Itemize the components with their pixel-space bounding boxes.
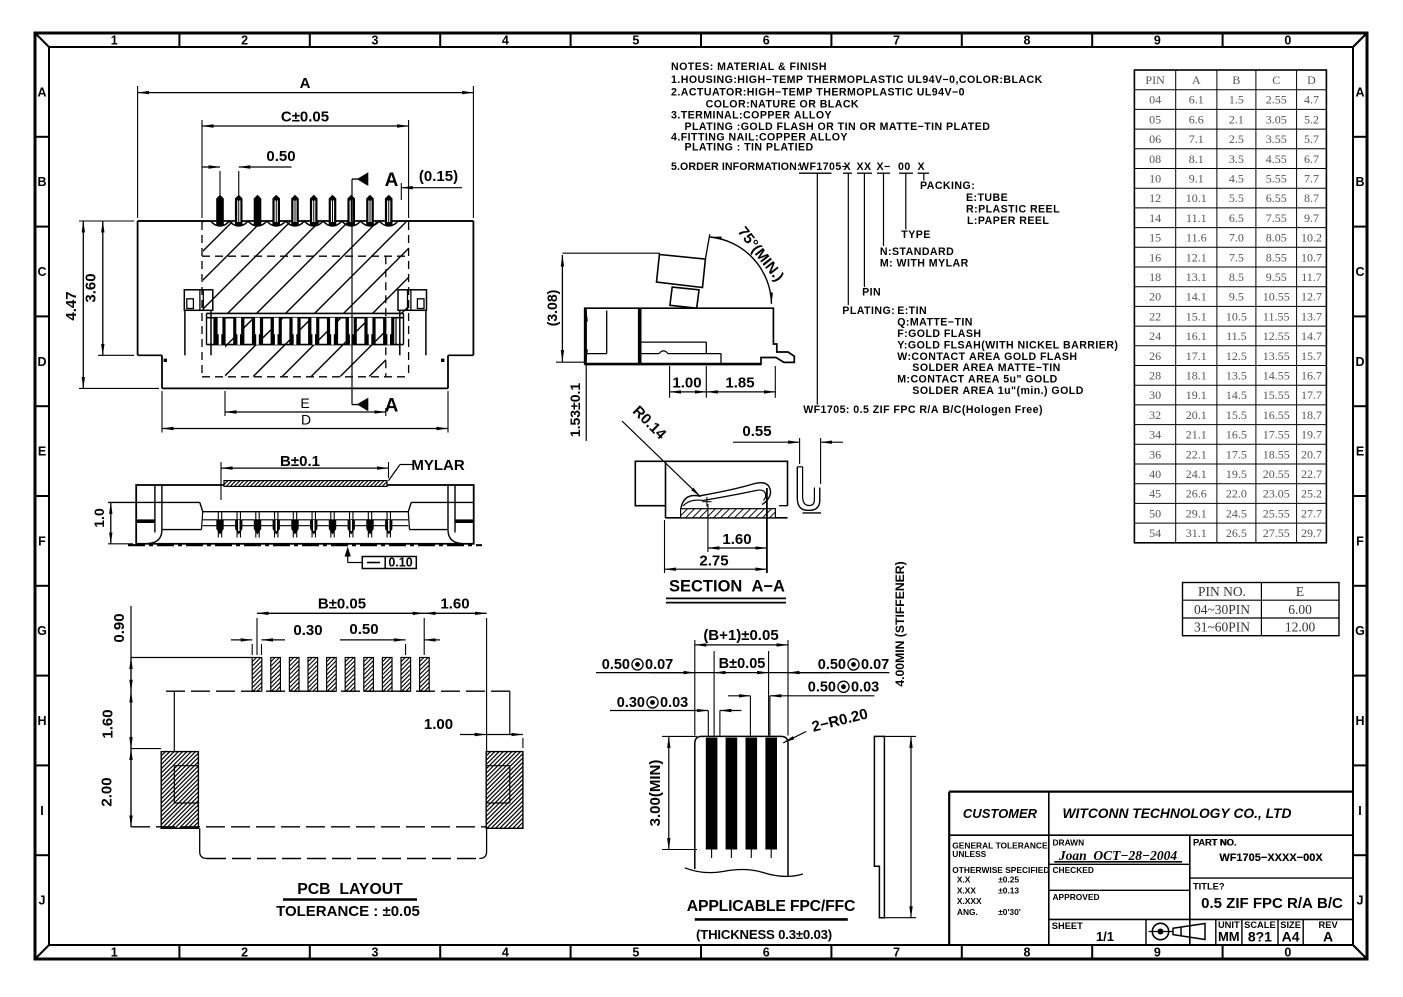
svg-text:±0'30': ±0'30'	[998, 907, 1021, 917]
front view: lower contact comb	[207, 313, 404, 344]
svg-text:24.5: 24.5	[1226, 506, 1247, 520]
svg-text:PCB LAYOUT: PCB LAYOUT	[297, 881, 403, 898]
svg-text:14: 14	[1149, 211, 1161, 225]
pin-no vs E table	[1183, 583, 1340, 636]
side view: center platform	[108, 502, 474, 529]
svg-text:8.5: 8.5	[1229, 270, 1244, 284]
svg-text:2: 2	[241, 946, 248, 960]
title block: drawn signature	[1054, 848, 1182, 863]
svg-text:(0.15): (0.15)	[419, 168, 458, 185]
svg-text:PLATING:: PLATING:	[842, 305, 895, 317]
order tree: type legend	[880, 229, 969, 270]
svg-text:14.55: 14.55	[1263, 369, 1290, 383]
svg-text:C±0.05: C±0.05	[281, 109, 329, 126]
svg-text:X.XX: X.XX	[957, 885, 976, 895]
dimension E (front)	[225, 391, 386, 416]
caption PCB LAYOUT	[276, 881, 420, 920]
svg-text:22.1: 22.1	[1186, 447, 1207, 461]
title block frame	[949, 792, 1353, 945]
order tree: series description	[803, 404, 1043, 416]
svg-text:I: I	[40, 804, 43, 818]
front view: dashed contact zone box	[202, 222, 409, 377]
svg-text:5: 5	[632, 34, 639, 48]
svg-text:11.6: 11.6	[1186, 231, 1207, 245]
svg-text:6.55: 6.55	[1266, 191, 1287, 205]
svg-text:6: 6	[763, 946, 770, 960]
svg-text:13.7: 13.7	[1301, 309, 1322, 323]
caption APPLICABLE FPC/FFC	[687, 898, 855, 942]
svg-text:15.1: 15.1	[1186, 309, 1207, 323]
svg-text:22: 22	[1149, 309, 1161, 323]
open view: 75 degree swing arc	[710, 224, 787, 304]
svg-text:2.55: 2.55	[1266, 93, 1287, 107]
svg-text:A: A	[1323, 929, 1333, 945]
svg-text:2.5: 2.5	[1229, 132, 1244, 146]
svg-text:20: 20	[1149, 290, 1161, 304]
svg-text:8: 8	[1024, 34, 1031, 48]
front view: housing hatch upper	[112, 222, 493, 313]
svg-text:8.55: 8.55	[1266, 250, 1287, 264]
section A-A: body cross-section	[635, 461, 787, 518]
svg-text:±0.13: ±0.13	[998, 885, 1019, 895]
svg-text:PLATING : TIN PLATIED: PLATING : TIN PLATIED	[685, 142, 814, 154]
svg-text:16.1: 16.1	[1186, 329, 1207, 343]
svg-text:6.6: 6.6	[1189, 112, 1204, 126]
svg-text:31~60PIN: 31~60PIN	[1194, 620, 1250, 635]
svg-text:H: H	[37, 714, 46, 728]
svg-text:7.7: 7.7	[1304, 172, 1319, 186]
svg-text:32: 32	[1149, 408, 1161, 422]
svg-text:2.ACTUATOR:HIGH−TEMP THERMOPLA: 2.ACTUATOR:HIGH−TEMP THERMOPLASTIC UL94V…	[671, 87, 965, 99]
svg-text:30: 30	[1149, 388, 1161, 402]
svg-text:05: 05	[1149, 112, 1161, 126]
svg-text:3.05: 3.05	[1266, 112, 1287, 126]
svg-text:7: 7	[893, 34, 900, 48]
section A-A: contact spring curve	[681, 483, 771, 573]
title block: drawn / checked / approved	[1053, 838, 1100, 903]
svg-text:0: 0	[1284, 946, 1291, 960]
svg-text:19.7: 19.7	[1301, 428, 1322, 442]
svg-text:0.55: 0.55	[742, 423, 771, 440]
svg-text:11.1: 11.1	[1186, 211, 1207, 225]
order tree: pin label	[862, 287, 881, 299]
svg-text:0.03: 0.03	[851, 679, 879, 695]
side view: housing outline	[136, 485, 474, 544]
svg-text:11.55: 11.55	[1263, 309, 1290, 323]
svg-text:I: I	[1358, 804, 1361, 818]
svg-text:E:TUBE: E:TUBE	[966, 192, 1008, 204]
svg-text:1.00: 1.00	[424, 716, 453, 733]
front view: connector housing outline	[138, 221, 474, 355]
svg-text:25.55: 25.55	[1263, 506, 1290, 520]
svg-text:34: 34	[1149, 428, 1161, 442]
svg-text:7.1: 7.1	[1189, 132, 1204, 146]
svg-text:MM: MM	[1218, 929, 1240, 944]
svg-text:X−: X−	[877, 161, 891, 173]
svg-text:SECTION A−A: SECTION A−A	[669, 578, 785, 596]
svg-text:15.5: 15.5	[1226, 408, 1247, 422]
svg-text:C: C	[1272, 73, 1280, 87]
svg-text:4.55: 4.55	[1266, 152, 1287, 166]
svg-text:Q:MATTE−TIN: Q:MATTE−TIN	[897, 317, 973, 329]
svg-text:04~30PIN: 04~30PIN	[1194, 602, 1250, 617]
front view: housing hatch lower	[166, 318, 428, 377]
svg-text:APPLICABLE FPC/FFC: APPLICABLE FPC/FFC	[687, 898, 855, 915]
svg-text:6.00: 6.00	[1288, 602, 1312, 617]
svg-text:D: D	[37, 355, 46, 369]
title block: company name	[1063, 806, 1292, 821]
svg-text:13.5: 13.5	[1226, 369, 1247, 383]
fpc: film body outline	[685, 736, 803, 877]
caption SECTION A-A	[666, 578, 786, 603]
svg-text:1/1: 1/1	[1096, 929, 1114, 944]
svg-text:PACKING:: PACKING:	[920, 180, 975, 192]
svg-text:8.1: 8.1	[1189, 152, 1204, 166]
svg-text:Y:GOLD FLSAH(WITH NICKEL BARRI: Y:GOLD FLSAH(WITH NICKEL BARRIER)	[897, 340, 1118, 352]
svg-text:16.7: 16.7	[1301, 369, 1322, 383]
dimension A (front width)	[138, 75, 474, 218]
front view: right fitting nail ear	[398, 290, 427, 356]
dimension 4.00MIN (STIFFENER)	[884, 561, 916, 917]
svg-text:A: A	[300, 75, 311, 92]
svg-text:6.7: 6.7	[1304, 152, 1319, 166]
svg-text:45: 45	[1149, 487, 1161, 501]
svg-text:54: 54	[1149, 526, 1161, 540]
title block: scale cell	[1244, 920, 1276, 945]
section A-A: FPC hatched cross-section	[672, 509, 779, 518]
svg-text:15: 15	[1149, 231, 1161, 245]
svg-text:4.00MIN (STIFFENER): 4.00MIN (STIFFENER)	[893, 561, 907, 686]
title block: title cell	[1193, 882, 1343, 913]
seating plane datum line	[128, 544, 482, 546]
svg-text:1.60: 1.60	[722, 531, 751, 548]
svg-text:27.55: 27.55	[1263, 526, 1290, 540]
dimension (3.08)	[544, 253, 660, 362]
svg-text:A: A	[1355, 85, 1364, 99]
svg-text:ANG.: ANG.	[957, 907, 978, 917]
title block: unit cell	[1218, 920, 1240, 944]
svg-text:DRAWN: DRAWN	[1053, 838, 1085, 848]
svg-text:17.7: 17.7	[1301, 388, 1322, 402]
svg-text:11.7: 11.7	[1301, 270, 1322, 284]
svg-text:17.1: 17.1	[1186, 349, 1207, 363]
svg-text:TOLERANCE : ±0.05: TOLERANCE : ±0.05	[276, 903, 420, 920]
svg-text:F: F	[1356, 534, 1364, 548]
svg-text:12.55: 12.55	[1263, 329, 1290, 343]
svg-text:L:PAPER REEL: L:PAPER REEL	[967, 215, 1049, 227]
svg-text:X: X	[918, 161, 926, 173]
svg-text:1.60: 1.60	[100, 709, 117, 738]
svg-text:8.7: 8.7	[1304, 191, 1319, 205]
svg-text:17.55: 17.55	[1263, 428, 1290, 442]
svg-text:X: X	[844, 161, 852, 173]
svg-text:J: J	[1357, 894, 1364, 908]
svg-text:0.50: 0.50	[602, 657, 630, 673]
dimension (0.15)	[401, 168, 462, 200]
svg-text:15.55: 15.55	[1263, 388, 1290, 402]
svg-text:7.0: 7.0	[1229, 231, 1244, 245]
side view: mylar film strip	[218, 481, 392, 487]
svg-text:10.7: 10.7	[1301, 250, 1322, 264]
svg-text:B±0.05: B±0.05	[719, 656, 766, 672]
svg-text:B±0.05: B±0.05	[318, 596, 366, 613]
dimension 1.0 (side height)	[91, 502, 133, 543]
svg-text:4.5: 4.5	[1229, 172, 1244, 186]
svg-text:5.55: 5.55	[1266, 172, 1287, 186]
svg-text:C: C	[1355, 265, 1364, 279]
dimension 0.50 conductor pitch (fpc)	[728, 679, 879, 735]
svg-text:10.5: 10.5	[1226, 309, 1247, 323]
svg-text:A: A	[1192, 73, 1201, 87]
svg-text:F:GOLD FLASH: F:GOLD FLASH	[897, 328, 981, 340]
svg-text:0.10: 0.10	[388, 556, 412, 570]
svg-text:0.03: 0.03	[660, 695, 688, 711]
title block: sheet cell	[1052, 921, 1114, 944]
svg-text:A4: A4	[1282, 929, 1300, 945]
svg-text:B: B	[37, 175, 46, 189]
svg-text:10.55: 10.55	[1263, 290, 1290, 304]
svg-text:3.5: 3.5	[1229, 152, 1244, 166]
svg-text:6.5: 6.5	[1229, 211, 1244, 225]
svg-text:D: D	[1355, 355, 1364, 369]
svg-text:8: 8	[1024, 946, 1031, 960]
side view: right end cap	[448, 485, 474, 543]
svg-text:20.1: 20.1	[1186, 408, 1207, 422]
svg-text:1.53±0.1: 1.53±0.1	[567, 383, 583, 438]
svg-text:17.5: 17.5	[1226, 447, 1247, 461]
svg-text:A: A	[385, 170, 399, 191]
svg-text:2.75: 2.75	[699, 552, 728, 569]
svg-text:14.5: 14.5	[1226, 388, 1247, 402]
svg-text:6: 6	[763, 34, 770, 48]
svg-text:8?1: 8?1	[1248, 929, 1272, 945]
dimension line 0.50/B±0.05/0.50 (fpc)	[596, 651, 889, 736]
svg-text:9: 9	[1154, 34, 1161, 48]
svg-text:25.2: 25.2	[1301, 487, 1322, 501]
dimension 2.75 (section)	[665, 520, 767, 573]
svg-text:WF1705−XXXX−00X: WF1705−XXXX−00X	[1219, 852, 1323, 864]
svg-text:N:STANDARD: N:STANDARD	[880, 246, 954, 258]
svg-text:36: 36	[1149, 447, 1161, 461]
svg-text:Joan OCT−28−2004: Joan OCT−28−2004	[1058, 848, 1178, 863]
svg-text:(B+1)±0.05: (B+1)±0.05	[703, 627, 778, 644]
svg-text:H: H	[1355, 714, 1364, 728]
side view: left end cap	[136, 485, 162, 543]
svg-text:SOLDER AREA MATTE−TIN: SOLDER AREA MATTE−TIN	[912, 362, 1060, 374]
svg-text:WF1705−: WF1705−	[799, 161, 848, 173]
svg-text:18.55: 18.55	[1263, 447, 1290, 461]
dimension 1.00 (open view)	[670, 366, 707, 398]
svg-text:9.5: 9.5	[1229, 290, 1244, 304]
dimension 0.30 (pad width)	[231, 622, 323, 655]
dimension 0.55 (section)	[733, 423, 843, 484]
svg-text:SHEET: SHEET	[1052, 921, 1083, 931]
svg-text:20.7: 20.7	[1301, 447, 1322, 461]
dimension 1.60 (pcb top right)	[424, 596, 486, 752]
svg-text:40: 40	[1149, 467, 1161, 481]
svg-text:TYPE: TYPE	[901, 229, 930, 241]
order tree: plating legend	[842, 305, 1118, 397]
svg-text:0.50: 0.50	[266, 148, 295, 165]
pcb layout: signal pads	[219, 658, 463, 692]
svg-text:06: 06	[1149, 132, 1161, 146]
svg-text:2.1: 2.1	[1229, 112, 1244, 126]
svg-text:G: G	[37, 624, 47, 638]
svg-text:9.1: 9.1	[1189, 172, 1204, 186]
svg-text:7.55: 7.55	[1266, 211, 1287, 225]
svg-text:7: 7	[893, 946, 900, 960]
pcb layout: courtyard dashed outline	[131, 691, 510, 858]
fpc: conductors	[706, 738, 777, 858]
dimension 1.00 (mount pad width)	[424, 716, 523, 748]
svg-text:3: 3	[372, 946, 379, 960]
svg-text:A: A	[37, 85, 46, 99]
title block: rev cell	[1319, 920, 1339, 945]
svg-text:21.1: 21.1	[1186, 428, 1207, 442]
svg-text:2: 2	[241, 34, 248, 48]
svg-text:14.7: 14.7	[1301, 329, 1322, 343]
svg-text:22.0: 22.0	[1226, 487, 1247, 501]
dimension D (front)	[162, 391, 448, 433]
svg-text:0.50: 0.50	[818, 657, 846, 673]
svg-text:13.55: 13.55	[1263, 349, 1290, 363]
svg-text:R:PLASTIC REEL: R:PLASTIC REEL	[966, 203, 1060, 215]
svg-text:5: 5	[632, 946, 639, 960]
svg-text:9.55: 9.55	[1266, 270, 1287, 284]
svg-text:E: E	[1296, 584, 1304, 599]
svg-text:2.00: 2.00	[99, 777, 116, 806]
svg-text:11.5: 11.5	[1226, 329, 1247, 343]
open view: housing body profile	[585, 308, 795, 364]
svg-text:12.7: 12.7	[1301, 290, 1322, 304]
svg-text:PIN: PIN	[1145, 73, 1165, 87]
order tree: packing legend	[920, 180, 1060, 227]
svg-text:00: 00	[898, 161, 911, 173]
svg-text:8.05: 8.05	[1266, 231, 1287, 245]
svg-text:14.1: 14.1	[1186, 290, 1207, 304]
title block: size cell	[1280, 920, 1301, 945]
svg-text:26.6: 26.6	[1186, 487, 1207, 501]
title block: general tolerance cell	[952, 841, 1049, 917]
svg-text:CUSTOMER: CUSTOMER	[963, 806, 1038, 821]
svg-text:10.1: 10.1	[1186, 191, 1207, 205]
callout R0.14 with leader	[622, 403, 701, 497]
front view: wavy mating edge	[138, 221, 474, 226]
order code underlines	[799, 172, 929, 174]
svg-text:0.50: 0.50	[349, 621, 378, 638]
svg-text:23.05: 23.05	[1263, 487, 1290, 501]
dimension 1.53±0.1	[567, 308, 586, 441]
pcb vertical dimension chain 0.90/1.60/2.00	[99, 606, 253, 827]
svg-text:24.1: 24.1	[1186, 467, 1207, 481]
side view: terminal pins	[216, 512, 392, 538]
svg-text:18: 18	[1149, 270, 1161, 284]
svg-text:B±0.1: B±0.1	[280, 453, 320, 470]
svg-text:22.7: 22.7	[1301, 467, 1322, 481]
svg-text:1.00: 1.00	[672, 374, 701, 391]
svg-text:19.5: 19.5	[1226, 467, 1247, 481]
stiffener strip	[874, 736, 884, 917]
svg-text:18.7: 18.7	[1301, 408, 1322, 422]
svg-text:31.1: 31.1	[1186, 526, 1207, 540]
notes: material and finish text block	[671, 61, 1043, 173]
svg-text:1.HOUSING:HIGH−TEMP THERMOPLAS: 1.HOUSING:HIGH−TEMP THERMOPLASTIC UL94V−…	[671, 74, 1043, 86]
svg-text:5.2: 5.2	[1304, 112, 1319, 126]
svg-text:B: B	[1232, 73, 1240, 87]
svg-text:1: 1	[111, 34, 118, 48]
svg-text:UNLESS: UNLESS	[952, 849, 986, 859]
svg-text:(3.08): (3.08)	[544, 290, 560, 327]
svg-text:OTHERWISE SPECIFIED: OTHERWISE SPECIFIED	[952, 865, 1049, 875]
svg-text:PIN NO.: PIN NO.	[1198, 584, 1246, 599]
svg-text:04: 04	[1149, 93, 1161, 107]
svg-text:MYLAR: MYLAR	[411, 457, 464, 474]
svg-text:WF1705: 0.5 ZIF FPC R/A B/C(Ho: WF1705: 0.5 ZIF FPC R/A B/C(Hologen Free…	[803, 404, 1043, 416]
dimension 1.85 (open view)	[706, 366, 775, 398]
svg-text:±0.25: ±0.25	[998, 875, 1019, 885]
svg-text:5.5: 5.5	[1229, 191, 1244, 205]
svg-text:0: 0	[1284, 34, 1291, 48]
svg-text:10.2: 10.2	[1301, 231, 1322, 245]
svg-text:1.0: 1.0	[91, 508, 107, 528]
svg-text:16.5: 16.5	[1226, 428, 1247, 442]
section cut line A-A	[352, 170, 399, 417]
svg-text:E: E	[38, 445, 46, 459]
svg-text:M: WITH MYLAR: M: WITH MYLAR	[880, 258, 969, 270]
svg-text:3: 3	[372, 34, 379, 48]
svg-text:0.07: 0.07	[861, 657, 889, 673]
svg-text:F: F	[38, 534, 46, 548]
svg-text:D: D	[1307, 73, 1316, 87]
svg-text:3.60: 3.60	[83, 273, 100, 302]
front view: lower flange	[162, 355, 448, 388]
svg-text:0.30: 0.30	[617, 695, 645, 711]
svg-text:A: A	[385, 396, 399, 417]
dimension 3.60	[83, 221, 135, 355]
svg-text:SOLDER AREA 1u"(min.) GOLD: SOLDER AREA 1u"(min.) GOLD	[912, 385, 1084, 397]
svg-text:26.5: 26.5	[1226, 526, 1247, 540]
svg-text:X.X: X.X	[957, 875, 971, 885]
svg-text:20.55: 20.55	[1263, 467, 1290, 481]
svg-text:D: D	[301, 412, 311, 428]
flatness callout 0.10 box	[345, 547, 417, 570]
svg-text:1.60: 1.60	[440, 596, 469, 613]
svg-text:6.1: 6.1	[1189, 93, 1204, 107]
svg-text:TITLE?: TITLE?	[1193, 882, 1225, 892]
svg-text:5.7: 5.7	[1304, 132, 1319, 146]
title block: third angle projection symbol	[1149, 923, 1206, 939]
label MYLAR with leader	[389, 457, 465, 481]
svg-text:16.55: 16.55	[1263, 408, 1290, 422]
dimension 0.30 conductor width (fpc)	[610, 695, 741, 736]
svg-text:(THICKNESS 0.3±0.03): (THICKNESS 0.3±0.03)	[696, 927, 832, 942]
svg-text:13.1: 13.1	[1186, 270, 1207, 284]
svg-text:APPROVED: APPROVED	[1053, 892, 1100, 902]
svg-text:3.55: 3.55	[1266, 132, 1287, 146]
svg-text:3.00(MIN): 3.00(MIN)	[647, 760, 664, 827]
pin dimension table	[1134, 70, 1326, 543]
svg-text:18.1: 18.1	[1186, 369, 1207, 383]
svg-text:J: J	[39, 894, 46, 908]
svg-text:NOTES: MATERIAL & FINISH: NOTES: MATERIAL & FINISH	[671, 61, 827, 73]
dimension B±0.1 (side view)	[221, 453, 389, 500]
callout 2-R0.20 with leader	[783, 705, 869, 742]
svg-text:19.1: 19.1	[1186, 388, 1207, 402]
front view: upper pin row	[216, 195, 392, 226]
svg-text:1.5: 1.5	[1229, 93, 1244, 107]
svg-text:12.5: 12.5	[1226, 349, 1247, 363]
svg-text:27.7: 27.7	[1301, 506, 1322, 520]
